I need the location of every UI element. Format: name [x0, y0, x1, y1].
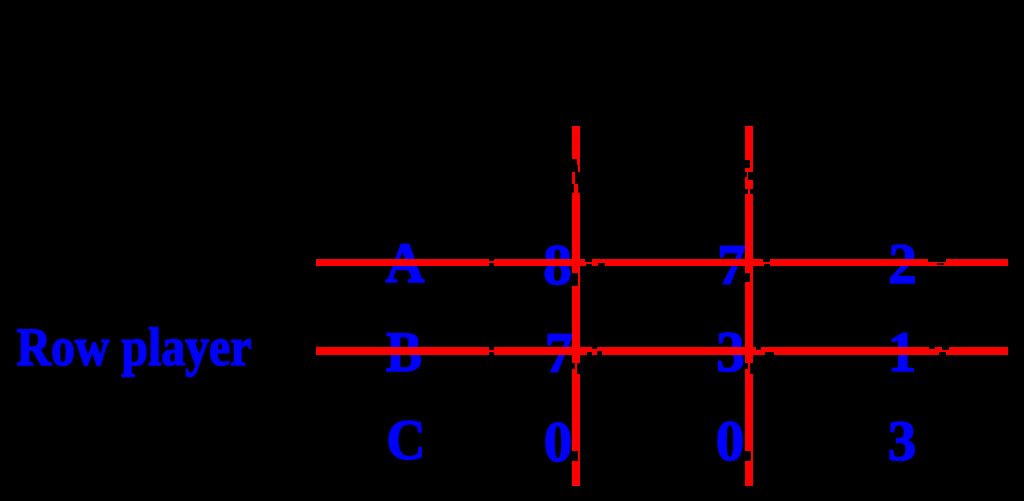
notch label2 c [745, 172, 747, 177]
comma A2 (black, hidden on dark bg) [549, 233, 949, 290]
notch comma B2 cut a [745, 363, 748, 369]
payoff B1=7 [359, 325, 759, 382]
notch comma C1 cut [572, 451, 578, 461]
notch B3 digit bottom [939, 352, 947, 355]
notch vrule x row A top [489, 259, 494, 262]
notch label2 b [748, 172, 753, 181]
column label 2 (black, hidden on dark bg) [549, 138, 949, 195]
notch label1 c [575, 172, 580, 184]
row label B [214, 324, 594, 381]
notch A1 digit2 bottom [598, 263, 605, 266]
comma A1 (black, hidden on dark bg) [376, 233, 776, 290]
comma C2 (black, hidden on dark bg) [549, 409, 949, 466]
notch label1 b [572, 165, 578, 173]
payoff B2=3 [531, 324, 931, 381]
row label A [215, 235, 595, 292]
red elimination line through row A [316, 259, 1008, 266]
notch comma C2 cut [745, 451, 751, 462]
title Column player (black, hidden on dark bg) [485, 35, 839, 89]
notch comma B1 cut a [572, 363, 575, 369]
col payoff C2 (black, hidden on dark bg) [567, 413, 967, 470]
notch B1 digit2 bottom [597, 351, 602, 355]
col payoff B1 (black, hidden on dark bg) [394, 325, 794, 382]
notch A3 digit top [928, 259, 946, 262]
col payoff B3 (black, hidden on dark bg) [738, 324, 1024, 381]
col payoff C3 (black, hidden on dark bg) [738, 413, 1024, 470]
notch B3 digit top b [942, 347, 949, 350]
col payoff C1 (black, hidden on dark bg) [394, 414, 794, 471]
red elimination line through column 1 [572, 126, 580, 486]
col payoff A3 (black, hidden on dark bg) [738, 236, 1024, 293]
notch vrule x row A bottom [489, 263, 494, 266]
notch label2 d [745, 189, 748, 194]
notch label1 a [572, 159, 577, 165]
payoff A1=8 [358, 237, 758, 294]
payoff C1=0 [358, 414, 758, 471]
notch A3 digit bottom [937, 263, 944, 265]
payoff A3=2 [703, 236, 1024, 293]
comma A3 (black, hidden on dark bg) [721, 232, 1024, 289]
payoff C2=0 [530, 413, 930, 470]
notch B1 digit bottom [587, 352, 592, 355]
comma C1 (black, hidden on dark bg) [376, 410, 776, 467]
notch A2 digit bottom [764, 264, 770, 266]
notch B3 digit top a [929, 347, 935, 349]
payoff A2=7 [532, 237, 932, 294]
black table vertical rule [489, 150, 493, 470]
notch B2 digit bottom [765, 352, 774, 355]
notch label1 d [572, 184, 574, 193]
notch comma B2 cut b [750, 363, 753, 374]
comma B2 (black, hidden on dark bg) [550, 320, 950, 377]
notch label1 e [578, 184, 580, 193]
red elimination line through row B [316, 347, 1008, 355]
label Row player [0, 320, 311, 374]
comma C3 (black, hidden on dark bg) [721, 409, 1024, 466]
comma B3 (black, hidden on dark bg) [722, 320, 1024, 377]
notch label2 e [750, 189, 753, 194]
notch comma A1 cut [572, 273, 578, 287]
notch A1 digit bottom [586, 264, 592, 266]
column label 1 (black, hidden on dark bg) [376, 138, 776, 195]
notch B2 digit top [756, 347, 762, 350]
col payoff A2 (black, hidden on dark bg) [567, 237, 967, 294]
column label 3 (black, hidden on dark bg) [721, 138, 1024, 195]
payoff B3=1 [702, 324, 1024, 381]
col payoff A1 (black, hidden on dark bg) [394, 237, 794, 294]
notch comma A2 cut [745, 273, 750, 282]
red elimination line through column 2 [745, 126, 753, 486]
row label C [216, 412, 596, 469]
notch A1 digit top [585, 259, 592, 263]
notch vrule x row B bottom [489, 352, 494, 355]
notch A2 digit top [763, 259, 770, 263]
payoff C3=3 [702, 413, 1024, 470]
notch label2 a [745, 160, 750, 168]
col payoff B2 (black, hidden on dark bg) [567, 324, 967, 381]
black table horizontal rule [480, 190, 1008, 193]
notch comma B1 cut b [577, 363, 580, 374]
notch vrule x row B top [489, 347, 494, 350]
notch B1 digit top [592, 347, 597, 349]
comma B1 (black, hidden on dark bg) [377, 321, 777, 378]
